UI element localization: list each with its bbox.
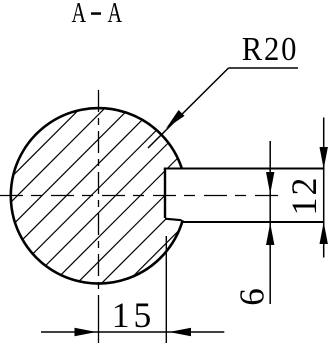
hatch line 10 bbox=[119, 95, 314, 290]
dim 6 lower arrow bbox=[266, 223, 274, 245]
vertical centerline of circle (dash-dot), also 15-dim extension bbox=[98, 90, 100, 343]
horizontal centerline of circle (dash-dot) bbox=[0, 195, 281, 197]
svg-text:A: A bbox=[71, 0, 86, 29]
hatch line 2 bbox=[0, 95, 118, 290]
hatch line 7 bbox=[46, 95, 241, 290]
hatch line 8 bbox=[70, 95, 265, 290]
hatch line 9 bbox=[95, 95, 290, 290]
svg-text:15: 15 bbox=[112, 295, 156, 335]
hatch line 1 bbox=[0, 95, 94, 290]
dim 15 left arrow bbox=[75, 328, 97, 336]
flat top edge (tab, extends as extension line) bbox=[164, 168, 325, 170]
dim 12 line bbox=[323, 118, 325, 258]
R20 leader diagonal bbox=[148, 68, 229, 148]
keyway vertical face bbox=[164, 169, 166, 219]
flat bottom edge (tab, extends as extension line) bbox=[183, 221, 325, 223]
hatch lines (45deg) clipped to section bbox=[0, 95, 314, 290]
hatch line 4 bbox=[0, 95, 167, 290]
dim 6 upper arrow bbox=[266, 172, 274, 194]
svg-text:6: 6 bbox=[233, 288, 272, 306]
svg-text:R20: R20 bbox=[242, 30, 298, 68]
dim 6 line bbox=[269, 141, 271, 304]
dim 12 bottom arrow bbox=[320, 222, 328, 244]
title A-A: dash bbox=[91, 12, 101, 15]
svg-text:A: A bbox=[107, 0, 122, 29]
keyway bottom step bbox=[165, 219, 182, 221]
dim 15 right extension line bbox=[165, 236, 167, 343]
hatch line 6 bbox=[21, 95, 216, 290]
svg-text:12: 12 bbox=[284, 176, 324, 216]
hatch line 3 bbox=[0, 95, 143, 290]
dim 15 right arrow bbox=[169, 328, 191, 336]
R20 leader shoulder bbox=[229, 67, 299, 69]
dim 12 top arrow bbox=[320, 147, 328, 169]
R20 leader arrow bbox=[163, 110, 184, 131]
shaft circle outline R20 (broken at keyway) bbox=[11, 108, 183, 283]
dim 15 line bbox=[41, 331, 224, 333]
hatch line 5 bbox=[0, 95, 192, 290]
